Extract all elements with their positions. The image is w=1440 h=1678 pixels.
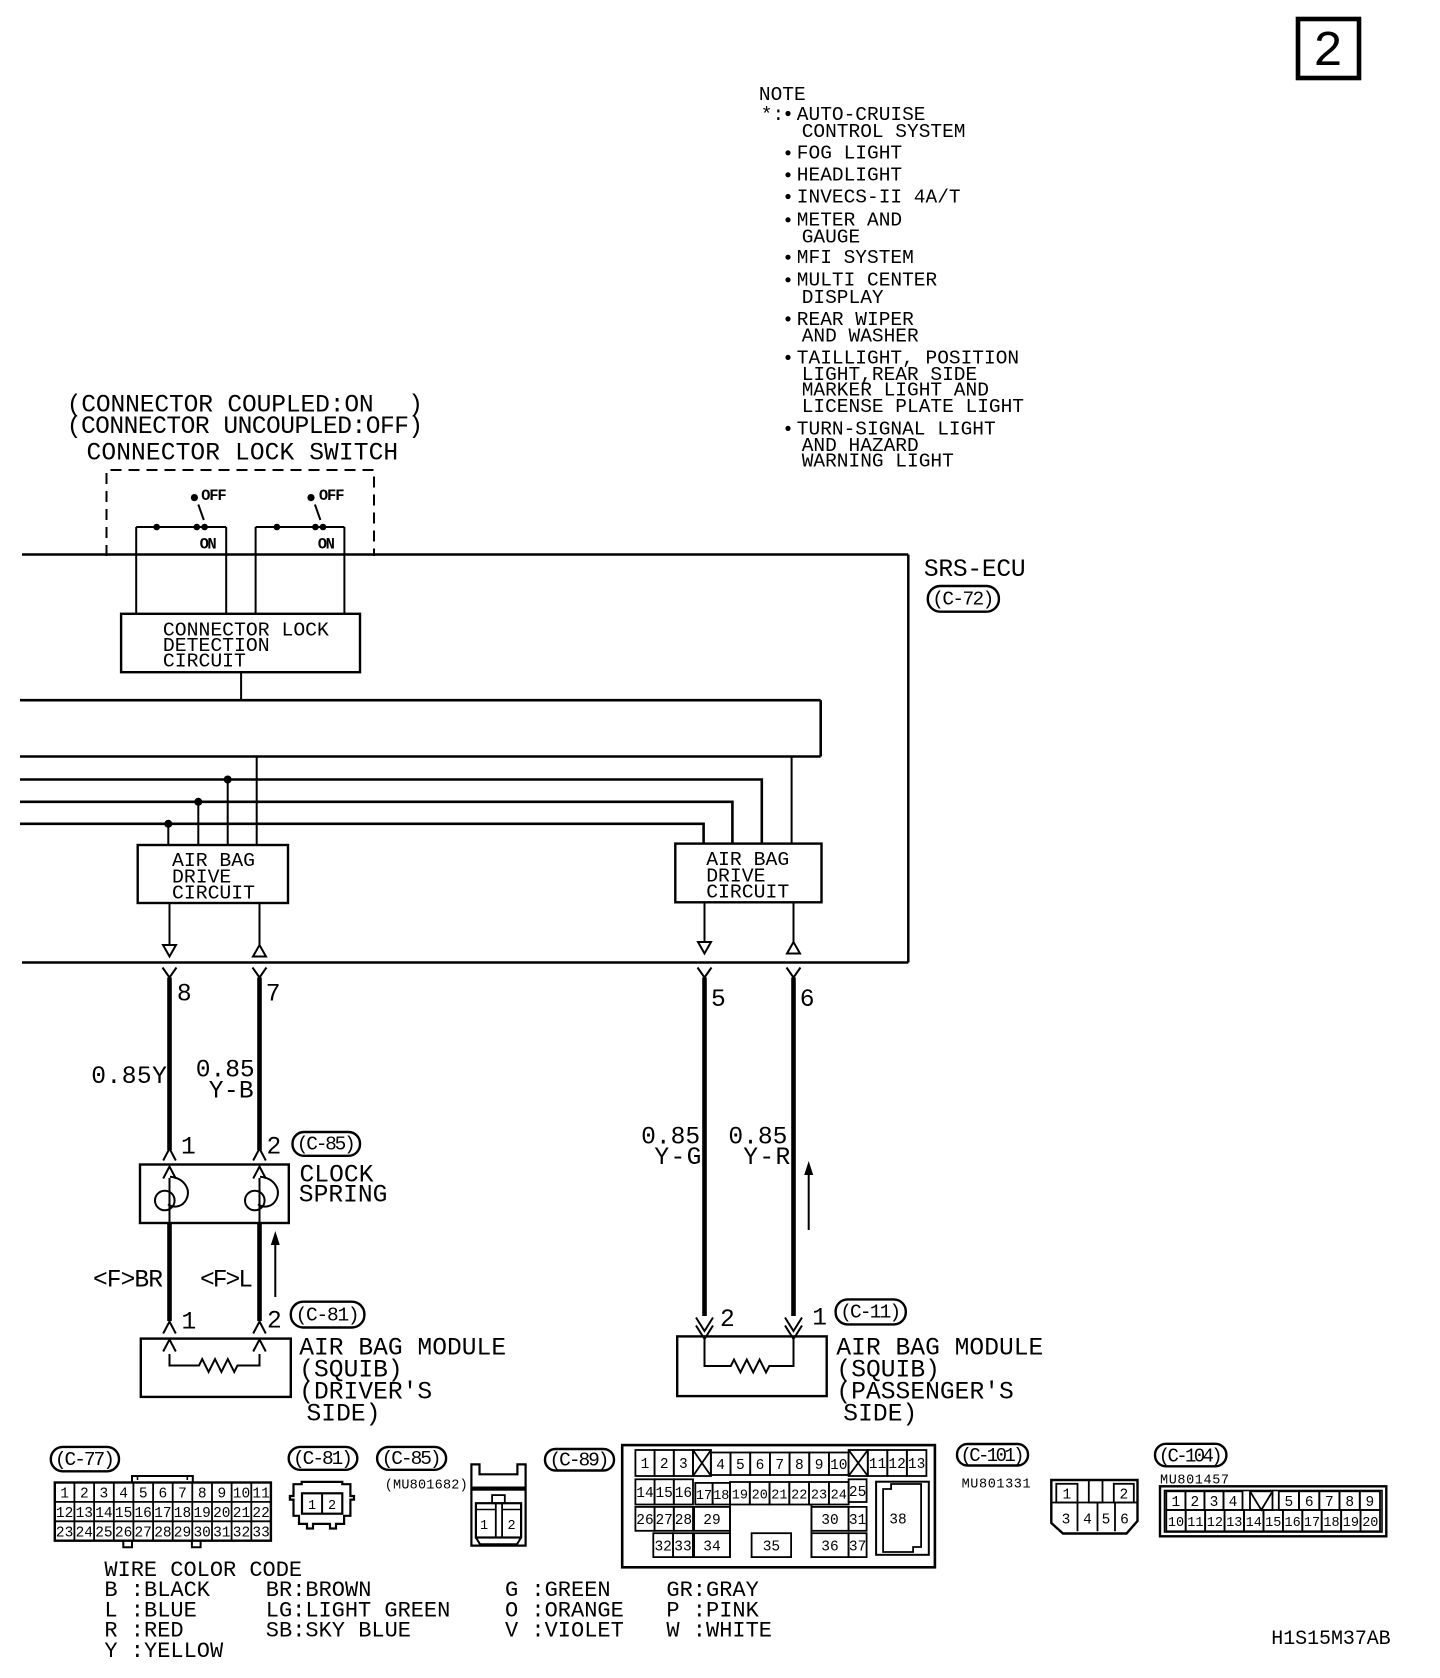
svg-text:16: 16: [1284, 1516, 1300, 1531]
svg-text:NOTE: NOTE: [759, 84, 806, 106]
svg-text:30: 30: [193, 1526, 210, 1542]
wire 0.85Y-G pin5 to module: [702, 978, 707, 1317]
svg-text:1: 1: [181, 1135, 196, 1162]
svg-text:20: 20: [213, 1506, 230, 1522]
svg-text:18: 18: [713, 1489, 729, 1504]
connector C-89 pinout: [622, 1445, 935, 1567]
svg-text:16: 16: [134, 1506, 151, 1522]
svg-text:37: 37: [849, 1539, 866, 1555]
svg-text:8: 8: [795, 1458, 804, 1474]
svg-text:7: 7: [266, 982, 281, 1009]
clock spring C-85 box: [140, 1165, 289, 1224]
svg-text:1: 1: [182, 1310, 197, 1337]
svg-text:ON: ON: [200, 536, 217, 554]
svg-text:2: 2: [80, 1487, 89, 1503]
svg-text:CONTROL SYSTEM: CONTROL SYSTEM: [802, 121, 966, 143]
svg-text:24: 24: [831, 1489, 847, 1504]
svg-text:19: 19: [193, 1506, 210, 1522]
svg-text:SIDE): SIDE): [307, 1401, 381, 1428]
svg-text:(CONNECTOR UNCOUPLED:OFF): (CONNECTOR UNCOUPLED:OFF): [67, 414, 424, 441]
wire color code legend: [104, 1558, 772, 1664]
svg-text:(C-85): (C-85): [297, 1134, 356, 1156]
svg-text:4: 4: [1083, 1513, 1092, 1529]
wire from bus bottom to driver drive circuit: [256, 757, 258, 846]
connector chevron wire1 lower: [163, 1167, 176, 1179]
svg-text:15: 15: [1265, 1516, 1281, 1531]
svg-text:33: 33: [674, 1539, 691, 1555]
SRS-ECU box (open on left): [22, 555, 908, 963]
svg-text:14: 14: [95, 1506, 112, 1522]
svg-text:24: 24: [76, 1526, 93, 1542]
svg-text:SPRING: SPRING: [299, 1183, 388, 1210]
wire from detection circuit to bus: [240, 672, 242, 700]
svg-text:32: 32: [233, 1526, 250, 1542]
svg-text:2: 2: [328, 1499, 336, 1514]
svg-text:13: 13: [908, 1457, 925, 1473]
svg-text:25: 25: [849, 1485, 866, 1501]
svg-text:14: 14: [1246, 1516, 1262, 1531]
svg-text:1: 1: [1063, 1487, 1072, 1503]
svg-text:15: 15: [115, 1506, 132, 1522]
wire 0.85Y-B pin7 to clock spring: [257, 978, 262, 1151]
svg-text:8: 8: [1345, 1495, 1354, 1511]
svg-text:7: 7: [178, 1487, 187, 1503]
svg-text:11: 11: [252, 1487, 269, 1503]
squib resistor R2 (passenger): [705, 1339, 794, 1372]
svg-text:5: 5: [736, 1458, 745, 1474]
svg-text:4: 4: [1229, 1495, 1238, 1511]
pin 7 connector fork: [253, 968, 267, 978]
svg-text:15: 15: [655, 1486, 672, 1502]
connector chevron wire2 lower: [253, 1167, 266, 1179]
svg-text:32: 32: [654, 1539, 671, 1555]
svg-text:21: 21: [771, 1489, 787, 1504]
svg-text:18: 18: [174, 1506, 191, 1522]
svg-text:(C-11): (C-11): [840, 1302, 901, 1324]
svg-text:3: 3: [1062, 1513, 1071, 1529]
internal bus bar rectangle: [20, 700, 821, 756]
svg-text:31: 31: [213, 1526, 230, 1542]
svg-text:H1S15M37AB: H1S15M37AB: [1271, 1628, 1390, 1651]
svg-text:5: 5: [139, 1487, 148, 1503]
air bag module label (driver): [299, 1335, 506, 1428]
svg-text:V :VIOLET: V :VIOLET: [505, 1619, 624, 1644]
wire drive to pin 6: [793, 902, 795, 941]
connector chevron wire1 upper: [163, 1149, 176, 1161]
wire (F)L clock spring to module: [257, 1223, 262, 1321]
svg-text:23: 23: [811, 1489, 827, 1504]
svg-text:2: 2: [1313, 24, 1343, 81]
svg-text:13: 13: [1226, 1516, 1242, 1531]
svg-text:MFI SYSTEM: MFI SYSTEM: [797, 247, 914, 269]
svg-text:OFF: OFF: [319, 487, 345, 505]
svg-text:6: 6: [159, 1487, 168, 1503]
connector C-104 pinout: [1160, 1486, 1386, 1536]
svg-text:29: 29: [174, 1526, 191, 1542]
wire from bus bottom to passenger drive circuit: [791, 757, 793, 844]
svg-text:1: 1: [60, 1487, 69, 1503]
svg-text:2: 2: [660, 1457, 669, 1473]
svg-text:2: 2: [267, 1309, 282, 1336]
svg-text:26: 26: [115, 1526, 132, 1542]
svg-text:20: 20: [752, 1489, 768, 1504]
svg-text:28: 28: [675, 1513, 692, 1529]
wire bus line 5: [20, 824, 704, 844]
wire junction to driver drive circuit: [227, 780, 229, 846]
svg-text:6: 6: [1305, 1495, 1314, 1511]
air bag drive circuit block (passenger side): [675, 844, 821, 904]
node junction on line 3: [224, 776, 232, 784]
svg-text:27: 27: [655, 1513, 672, 1529]
svg-text:7: 7: [1325, 1495, 1334, 1511]
svg-text:28: 28: [154, 1526, 171, 1542]
air bag module box (passenger side): [677, 1336, 827, 1396]
svg-text:Y-R: Y-R: [743, 1145, 790, 1172]
svg-text:26: 26: [636, 1513, 653, 1529]
svg-text:10: 10: [830, 1458, 847, 1474]
connector C-85 label (bottom): [377, 1447, 446, 1470]
svg-text:4: 4: [119, 1487, 128, 1503]
svg-text:*:: *:: [761, 104, 784, 126]
svg-text:W :WHITE: W :WHITE: [666, 1619, 772, 1644]
svg-text:1: 1: [1171, 1495, 1180, 1511]
connector lock switch dashed enclosure: [107, 470, 375, 556]
svg-text:31: 31: [849, 1513, 866, 1529]
svg-text:6: 6: [1120, 1513, 1129, 1529]
svg-text:38: 38: [889, 1513, 906, 1529]
air bag module label (passenger): [836, 1335, 1043, 1428]
svg-text:(C-81): (C-81): [296, 1304, 360, 1326]
svg-text:3: 3: [1210, 1495, 1219, 1511]
direction triangle down (pin 8): [163, 945, 176, 957]
svg-text:(C-104): (C-104): [1159, 1446, 1223, 1468]
direction triangle up (pin 7): [253, 945, 266, 957]
svg-text:FOG LIGHT: FOG LIGHT: [797, 143, 902, 165]
svg-text:7: 7: [775, 1458, 784, 1474]
arrow chevrons wire5: [696, 1318, 713, 1332]
air bag module box (driver side): [141, 1339, 291, 1397]
svg-text:(C-101): (C-101): [961, 1445, 1025, 1467]
wire 0.85Y pin8 to clock spring: [167, 978, 172, 1151]
connector C-77 label: [51, 1447, 119, 1471]
page number box: [1298, 19, 1359, 81]
switch S2 (passenger side lock switch): [256, 487, 345, 614]
svg-text:Y-B: Y-B: [209, 1079, 254, 1106]
svg-text:36: 36: [821, 1539, 838, 1555]
svg-text:9: 9: [1366, 1495, 1375, 1511]
svg-text:SB:SKY BLUE: SB:SKY BLUE: [266, 1619, 411, 1644]
svg-text:ON: ON: [318, 536, 335, 554]
direction triangle up (pin 6): [787, 942, 800, 954]
connector C-81 label: [291, 1302, 365, 1328]
svg-text:2: 2: [1119, 1487, 1128, 1503]
svg-text:1: 1: [480, 1519, 488, 1534]
svg-text:OFF: OFF: [201, 487, 227, 505]
wire junction to driver drive circuit: [197, 802, 199, 845]
svg-text:18: 18: [1323, 1516, 1339, 1531]
svg-text:2: 2: [1191, 1495, 1200, 1511]
svg-text:6: 6: [756, 1458, 765, 1474]
note list: [761, 104, 1024, 473]
air bag drive circuit block (driver side): [138, 845, 288, 905]
connector C-89 label: [545, 1449, 614, 1471]
svg-text:5: 5: [1102, 1513, 1111, 1529]
svg-text:AND WASHER: AND WASHER: [802, 326, 919, 348]
svg-text:12: 12: [1207, 1516, 1223, 1531]
direction triangle down (pin 5): [698, 942, 711, 954]
svg-text:SRS-ECU: SRS-ECU: [924, 557, 1026, 584]
svg-text:20: 20: [1362, 1516, 1378, 1531]
svg-text:Y-G: Y-G: [654, 1145, 701, 1172]
pin 6 connector fork: [787, 968, 801, 978]
svg-text:11: 11: [1187, 1516, 1203, 1531]
svg-text:17: 17: [1304, 1516, 1320, 1531]
svg-text:3: 3: [679, 1457, 688, 1473]
label connector coupled/uncoupled: [67, 393, 424, 442]
svg-text:(C-89): (C-89): [550, 1449, 610, 1471]
svg-text:12: 12: [888, 1457, 905, 1473]
connector chevron module1 lower: [163, 1340, 176, 1352]
svg-text:WARNING LIGHT: WARNING LIGHT: [802, 451, 954, 473]
svg-text:6: 6: [800, 987, 815, 1014]
svg-text:(C-72): (C-72): [932, 589, 994, 611]
switch S1 (driver side lock switch): [136, 487, 227, 614]
connector C-101 label: [957, 1444, 1028, 1467]
wire drive to pin 7: [259, 903, 261, 945]
svg-text:LICENSE PLATE LIGHT: LICENSE PLATE LIGHT: [802, 396, 1024, 418]
connector chevron module2 lower: [253, 1340, 266, 1352]
connector chevron module2 upper: [253, 1322, 266, 1334]
connector C-11 label: [836, 1299, 906, 1324]
svg-text:1: 1: [812, 1305, 827, 1332]
svg-text:2: 2: [267, 1135, 282, 1162]
svg-text:10: 10: [1168, 1516, 1184, 1531]
svg-text:8: 8: [198, 1487, 207, 1503]
svg-text:SIDE): SIDE): [843, 1401, 917, 1428]
svg-text:5: 5: [711, 987, 726, 1014]
connector chevron module1 upper: [163, 1322, 176, 1334]
direction arrow up (passenger): [804, 1161, 813, 1230]
connector chevron wire2 upper: [253, 1149, 266, 1161]
node junction on line 4: [194, 798, 202, 806]
coil L2: [245, 1177, 278, 1223]
svg-text:11: 11: [869, 1457, 886, 1473]
svg-text:27: 27: [134, 1526, 151, 1542]
svg-text:MU801331: MU801331: [962, 1478, 1031, 1493]
svg-text:35: 35: [763, 1539, 780, 1555]
svg-text:CIRCUIT: CIRCUIT: [163, 650, 246, 672]
direction arrow up (driver): [271, 1231, 280, 1297]
wire drive to pin 5: [704, 902, 706, 941]
svg-text:19: 19: [732, 1489, 748, 1504]
svg-text:21: 21: [233, 1506, 250, 1522]
wire (F)BR clock spring to module: [167, 1223, 172, 1321]
svg-text:4: 4: [716, 1458, 725, 1474]
arrow chevrons wire6: [785, 1318, 802, 1332]
svg-text:19: 19: [1343, 1516, 1359, 1531]
svg-text:Y :YELLOW: Y :YELLOW: [104, 1639, 224, 1664]
svg-text:HEADLIGHT: HEADLIGHT: [797, 165, 902, 187]
squib resistor R1 (driver): [170, 1354, 260, 1372]
svg-text:22: 22: [791, 1489, 807, 1504]
svg-text:GAUGE: GAUGE: [802, 226, 861, 248]
svg-text:2: 2: [507, 1519, 515, 1534]
connector lock detection circuit block U1: [121, 614, 360, 673]
wire 0.85Y-R pin6 to module: [791, 978, 796, 1317]
svg-text:9: 9: [217, 1487, 226, 1503]
svg-text:1: 1: [641, 1457, 650, 1473]
svg-text:1: 1: [308, 1499, 316, 1514]
svg-text:8: 8: [177, 982, 192, 1009]
svg-text:3: 3: [100, 1487, 109, 1503]
svg-text:<F>BR: <F>BR: [93, 1268, 163, 1295]
connector C-101 pinout: [1051, 1480, 1137, 1534]
wire junction to driver drive circuit: [167, 824, 169, 845]
svg-text:33: 33: [252, 1526, 269, 1542]
wire bus line 4: [20, 802, 732, 844]
pin 8 connector fork: [163, 968, 177, 978]
svg-text:25: 25: [95, 1526, 112, 1542]
svg-text:29: 29: [703, 1513, 720, 1529]
svg-text:(C-85): (C-85): [382, 1448, 442, 1470]
svg-text:14: 14: [636, 1486, 653, 1502]
svg-text:12: 12: [56, 1506, 73, 1522]
connector C-77 pinout: [55, 1476, 271, 1547]
svg-text:<F>L: <F>L: [200, 1268, 253, 1295]
connector C-81 label (bottom): [289, 1447, 358, 1470]
svg-text:(MU801682): (MU801682): [385, 1479, 468, 1494]
connector C-81 pinout: [290, 1482, 354, 1529]
svg-text:CIRCUIT: CIRCUIT: [706, 882, 789, 904]
svg-text:10: 10: [233, 1487, 250, 1503]
svg-text:16: 16: [675, 1486, 692, 1502]
wire drive to pin 8: [169, 903, 171, 944]
connector C-85 pinout: [471, 1464, 525, 1545]
svg-text:INVECS-II 4A/T: INVECS-II 4A/T: [797, 186, 961, 208]
svg-text:34: 34: [703, 1539, 720, 1555]
connector C-72 label: [928, 586, 999, 612]
connector C-85 label: [293, 1132, 361, 1156]
connector C-104 label: [1155, 1444, 1226, 1468]
node junction on line 5: [164, 820, 172, 828]
coil L1 (driver squib line): [155, 1177, 188, 1223]
svg-text:23: 23: [56, 1526, 73, 1542]
svg-text:9: 9: [815, 1458, 824, 1474]
svg-text:22: 22: [252, 1506, 269, 1522]
svg-text:CIRCUIT: CIRCUIT: [172, 883, 255, 905]
svg-text:17: 17: [154, 1506, 171, 1522]
svg-text:CONNECTOR LOCK SWITCH: CONNECTOR LOCK SWITCH: [87, 440, 399, 467]
svg-text:DISPLAY: DISPLAY: [802, 287, 884, 309]
svg-text:2: 2: [720, 1307, 735, 1334]
svg-text:30: 30: [821, 1513, 838, 1529]
svg-text:13: 13: [76, 1506, 93, 1522]
pin 5 connector fork: [698, 968, 712, 978]
svg-text:(C-77): (C-77): [55, 1449, 115, 1471]
svg-text:0.85Y: 0.85Y: [91, 1064, 167, 1091]
svg-text:17: 17: [696, 1489, 712, 1504]
svg-text:5: 5: [1285, 1495, 1294, 1511]
svg-text:(C-81): (C-81): [293, 1448, 353, 1470]
wire bus line 3: [20, 780, 762, 844]
